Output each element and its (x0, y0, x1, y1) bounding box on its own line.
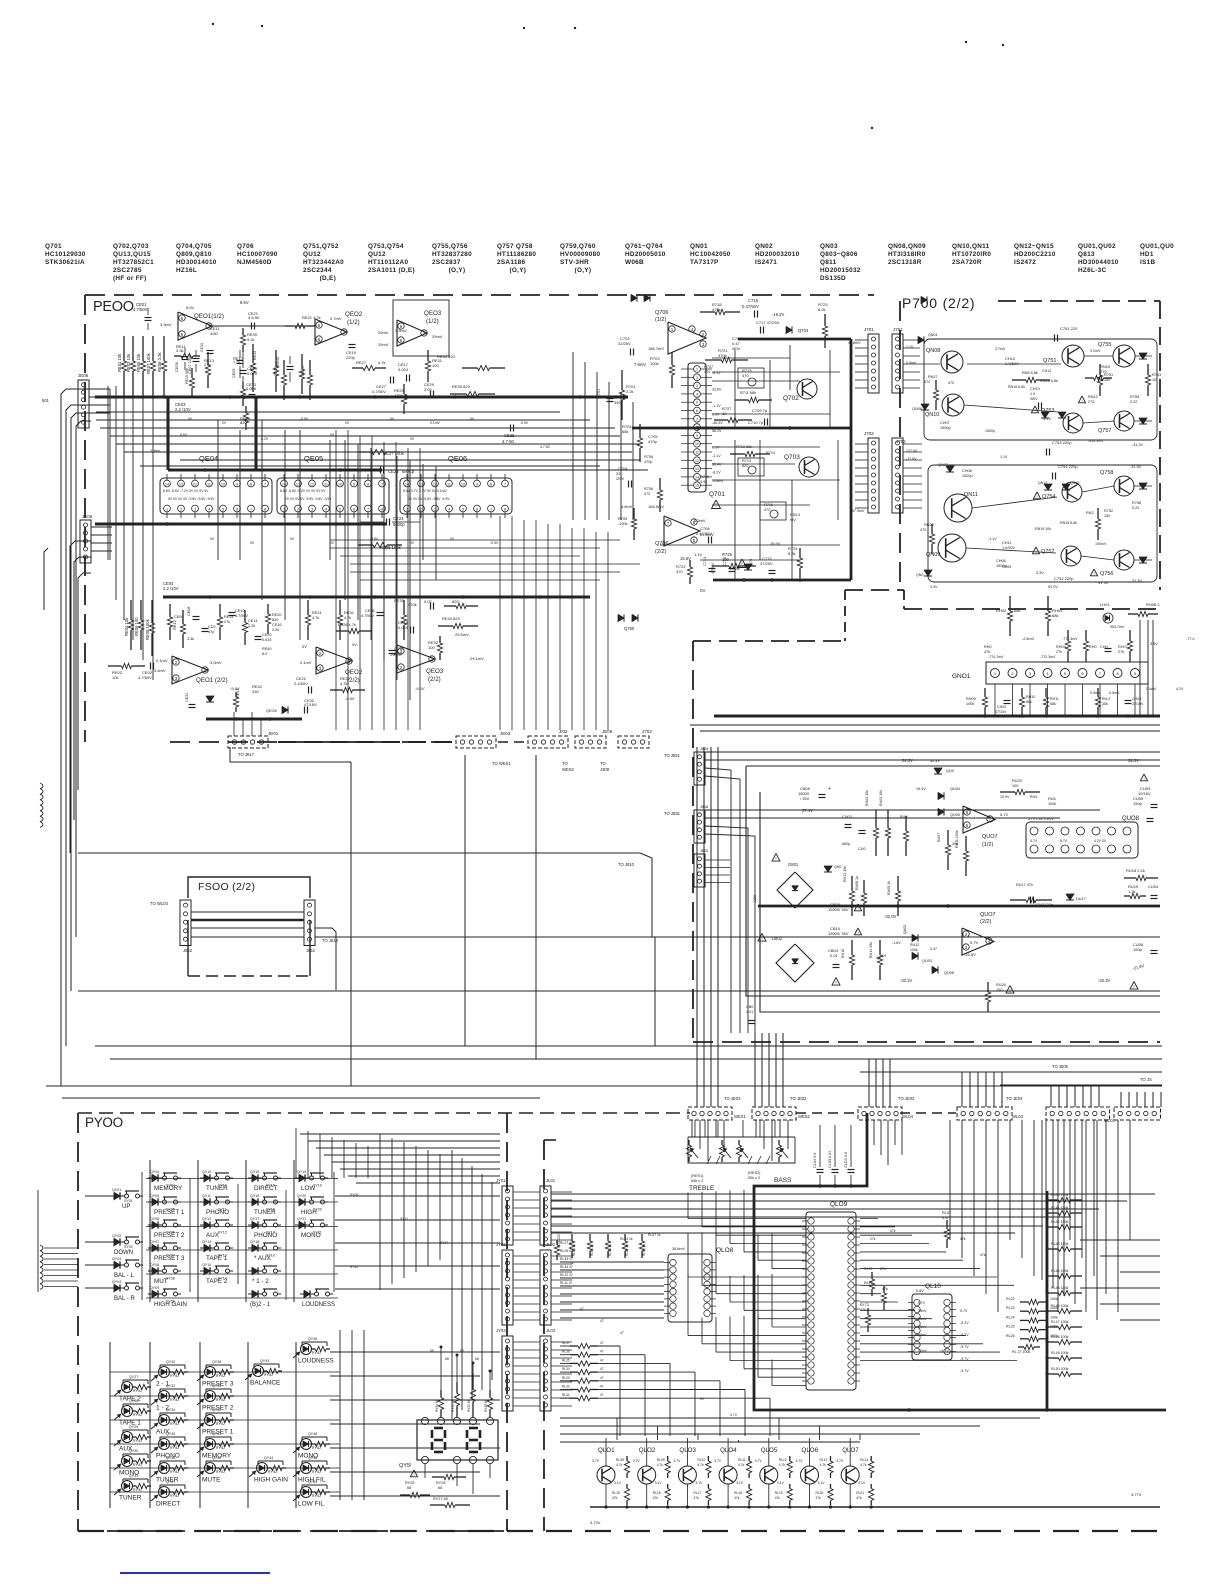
svg-text:47k: 47k (816, 1496, 822, 1500)
svg-text:RE35 820: RE35 820 (452, 384, 471, 389)
svg-text:470k: 470k (712, 307, 721, 312)
svg-text:TUNER: TUNER (254, 1209, 276, 1216)
svg-text:8.2k: 8.2k (818, 307, 826, 312)
svg-text:Q751,Q752: Q751,Q752 (303, 243, 339, 250)
svg-text:RL17: RL17 (693, 1491, 701, 1495)
svg-text:47: 47 (600, 1385, 604, 1389)
svg-text:RE27: RE27 (356, 360, 367, 365)
resistor RE16 56k (244, 610, 246, 623)
svg-text:8.6V -5.8V -5.2V 0V 0V 0V: 8.6V -5.8V -5.2V 0V 0V 0V 0V (280, 489, 326, 493)
svg-text:4.7/50V: 4.7/50V (133, 307, 148, 312)
vertical drops below connector WES1 (691, 1120, 693, 1137)
svg-text:CH11: CH11 (1002, 541, 1011, 545)
svg-text:QN02: QN02 (755, 243, 773, 250)
svg-text:RU18 2.2k: RU18 2.2k (1126, 868, 1145, 873)
svg-text:HD30044010: HD30044010 (1078, 259, 1119, 266)
svg-text:JY03: JY03 (496, 1328, 506, 1333)
svg-text:QU04: QU04 (950, 787, 960, 791)
IC QE04 (160, 478, 272, 514)
svg-text:Q701: Q701 (709, 491, 725, 498)
svg-text:820: 820 (272, 618, 278, 622)
resistor RE39 9.2k (242, 328, 244, 335)
svg-text:7.2k: 7.2k (233, 360, 241, 365)
svg-text:2SA1186: 2SA1186 (497, 259, 526, 266)
connector JY02 (502, 1250, 513, 1325)
switch TAPE 1 QY12 (200, 1247, 204, 1249)
horizontal feed wires QL block top from JL01 (551, 1193, 1155, 1195)
svg-text:15.9V: 15.9V (1000, 795, 1010, 799)
svg-text:-56.3V: -56.3V (712, 421, 723, 425)
svg-text:-1.6V: -1.6V (892, 941, 901, 945)
resistor RE17 7.2k (242, 382, 244, 389)
capacitor CE20 0.024 (255, 636, 262, 638)
svg-text:TO JE02: TO JE02 (790, 1096, 807, 1101)
svg-text:5.7V: 5.7V (918, 1301, 926, 1305)
svg-text:AUX: AUX (206, 1232, 220, 1239)
svg-text:RU03 10k: RU03 10k (879, 790, 883, 806)
resistor RE26 4.7k (339, 600, 341, 615)
svg-text:47k: 47k (856, 1496, 862, 1500)
svg-text:4.2V: 4.2V (1176, 687, 1184, 691)
svg-text:CH12: CH12 (1042, 369, 1051, 373)
svg-text:RH11: RH11 (1050, 697, 1059, 701)
connector JL03 (540, 1336, 551, 1411)
indicator BALANCE QY43 (253, 1366, 264, 1377)
svg-text:RU07: RU07 (937, 833, 941, 842)
svg-text:8: 8 (264, 508, 266, 512)
svg-text:3.1V: 3.1V (818, 1481, 826, 1485)
svg-text:RL13: RL13 (820, 1458, 828, 1462)
svg-text:QU05: QU05 (944, 971, 954, 975)
horizontal runs below bold bus QL (560, 1417, 1040, 1419)
svg-text:3.3V: 3.3V (1036, 571, 1044, 575)
resistor RE01 10k (123, 336, 125, 361)
svg-text:QE04: QE04 (199, 454, 218, 463)
svg-text:100k: 100k (966, 702, 974, 706)
svg-text:SY02: SY02 (124, 1245, 133, 1249)
resistor R751 150 (1099, 364, 1101, 375)
svg-text:QEO8: QEO8 (266, 709, 277, 713)
svg-text:2.2 /10V: 2.2 /10V (163, 586, 179, 591)
resistor RL40 100k (1047, 1199, 1059, 1201)
svg-text:QN09: QN09 (926, 552, 940, 558)
svg-text:-1.1V: -1.1V (1042, 417, 1052, 421)
svg-text:DOWN: DOWN (114, 1250, 133, 1256)
svg-text:47/63V: 47/63V (711, 562, 715, 574)
resistor RE27 4.7k (352, 367, 363, 369)
switch TUNER QY09 (200, 1177, 204, 1179)
svg-text:(D,E): (D,E) (303, 275, 336, 282)
svg-text:(RES1): (RES1) (691, 1174, 704, 1178)
svg-text:-9.5V: -9.5V (520, 421, 529, 425)
resistor RU02 10k (875, 810, 877, 828)
svg-text:R706: R706 (644, 455, 653, 459)
svg-text:RY31 68: RY31 68 (435, 1399, 439, 1412)
svg-text:RL20: RL20 (816, 1491, 824, 1495)
svg-text:RE05 10k: RE05 10k (136, 353, 141, 372)
op-amp QE01 (2/2) (172, 656, 208, 684)
svg-text:47k: 47k (734, 1496, 740, 1500)
svg-text:RN18 6.8k: RN18 6.8k (1040, 379, 1058, 383)
capacitor CU02 680p (845, 824, 852, 826)
capacitor CE02 4.7/50V (150, 663, 152, 670)
svg-text:0.024: 0.024 (262, 638, 272, 642)
svg-text:Q759,Q760: Q759,Q760 (560, 243, 596, 250)
wires GN01 pins to rail (994, 684, 996, 716)
diode QN04 input (921, 296, 927, 303)
svg-text:QY20: QY20 (297, 1194, 306, 1198)
svg-text:0V: 0V (250, 541, 255, 545)
indicator TAPE 1 QY28 (122, 1406, 133, 1417)
svg-text:PRESET 2: PRESET 2 (154, 1232, 185, 1239)
svg-text:QU01,QU0: QU01,QU0 (1140, 243, 1174, 250)
svg-text:47: 47 (600, 1367, 604, 1371)
wires PY00 left entry (40, 1245, 43, 1251)
svg-text:TO J581: TO J581 (664, 811, 681, 816)
svg-text:47k: 47k (984, 650, 990, 654)
svg-text:RE43: RE43 (253, 351, 257, 360)
svg-text:RU12: RU12 (910, 943, 919, 947)
svg-text:J751: J751 (893, 327, 903, 332)
svg-text:CE31: CE31 (185, 693, 189, 703)
svg-text:RE26: RE26 (344, 611, 354, 615)
svg-text:5.7V: 5.7V (1060, 839, 1068, 843)
svg-text:4.6-50: 4.6-50 (248, 315, 260, 320)
connector WL02 right (1114, 1107, 1161, 1120)
op-amp QE02 (1/2) (315, 319, 347, 345)
svg-text:IS1B: IS1B (1140, 259, 1155, 266)
svg-text:11: 11 (695, 451, 699, 455)
svg-text:470: 470 (924, 380, 930, 384)
svg-text:HT327852C1: HT327852C1 (113, 259, 154, 266)
rect around QE03 (393, 300, 449, 356)
resistor RU05 1k (897, 876, 899, 891)
diode QN14 right column (1139, 483, 1147, 489)
indicator MONO QY48 (301, 1439, 312, 1450)
svg-text:!: ! (857, 930, 858, 935)
svg-text:J703: J703 (642, 729, 652, 734)
indicator TUNER QY31 (122, 1481, 133, 1492)
svg-text:8.6V -5.6V -7.2V 0V 0V 0V: 8.6V -5.6V -7.2V 0V 0V 0V 0V (163, 489, 209, 493)
svg-text:47k: 47k (882, 1287, 888, 1291)
svg-text:0.024: 0.024 (247, 371, 258, 376)
svg-text:RL25 47: RL25 47 (560, 1249, 573, 1253)
svg-text:SY01: SY01 (124, 1199, 133, 1203)
svg-text:4.7k: 4.7k (779, 1463, 786, 1467)
svg-text:TO J505: TO J505 (1052, 1064, 1069, 1069)
svg-text:8: 8 (490, 483, 492, 487)
svg-text:QN13: QN13 (1038, 481, 1047, 485)
dashed bottom main (78, 1530, 1160, 1532)
svg-text:470: 470 (704, 370, 710, 374)
switch PHONO QY16 (248, 1224, 252, 1226)
svg-text:RU11 100k: RU11 100k (955, 830, 959, 848)
svg-text:-1.1V: -1.1V (712, 404, 721, 408)
svg-text:Q813: Q813 (1078, 251, 1095, 258)
svg-text:270: 270 (1088, 400, 1094, 404)
svg-text:RE12: RE12 (172, 619, 177, 630)
svg-text:0.9mV: 0.9mV (1090, 691, 1101, 695)
svg-text:10: 10 (221, 483, 225, 487)
wires JE01 up (233, 712, 235, 736)
resistor RH12 33k (1097, 688, 1099, 697)
svg-text:35k: 35k (1102, 702, 1108, 706)
svg-text:8: 8 (381, 508, 383, 512)
svg-text:MONO: MONO (301, 1232, 321, 1239)
svg-text:QN01: QN01 (690, 243, 708, 250)
svg-text:C713: C713 (703, 557, 707, 566)
svg-text:QN10: QN10 (925, 412, 939, 418)
seven segment pins bottom (421, 1456, 428, 1463)
capacitor CE07 (193, 358, 200, 360)
svg-text:TO JE03: TO JE03 (724, 1096, 741, 1101)
vertical wire bundle right of QL09 (949, 1120, 951, 1240)
svg-text:J309: J309 (600, 767, 610, 772)
svg-text:DU17: DU17 (1076, 897, 1086, 901)
left outer hook arc (44, 548, 48, 610)
svg-text:7: 7 (696, 417, 698, 421)
wires PY00 row feeds (300, 1133, 500, 1135)
svg-text:8: 8 (250, 483, 252, 487)
diode QE07 (206, 696, 214, 702)
wires from J819 long rails (705, 751, 1160, 753)
svg-text:RN15 6.8k: RN15 6.8k (1060, 521, 1077, 525)
svg-text:(O,Y): (O,Y) (432, 267, 465, 274)
svg-text:RL73: RL73 (860, 1303, 869, 1307)
svg-text:RN19 10k: RN19 10k (1035, 527, 1051, 531)
svg-text:HD20015032: HD20015032 (820, 267, 861, 274)
svg-text:2: 2 (180, 508, 182, 512)
svg-text:14: 14 (282, 483, 286, 487)
wire horizontal runs mid PE00 (96, 411, 560, 413)
svg-text:SY12: SY12 (218, 1231, 227, 1235)
vertical drops below connector WL04 (873, 1120, 875, 1145)
svg-text:RL19: RL19 (775, 1491, 783, 1495)
bridge rectifier D802 (776, 944, 814, 982)
svg-text:27k: 27k (224, 620, 230, 624)
svg-text:0V: 0V (700, 1397, 705, 1401)
svg-text:50k x 2: 50k x 2 (748, 1176, 760, 1180)
svg-text:MUTE: MUTE (202, 1477, 221, 1484)
svg-text:RN12: RN12 (1088, 395, 1098, 399)
svg-text:11: 11 (324, 483, 328, 487)
svg-text:QY48: QY48 (308, 1432, 317, 1436)
resistor RE37 100k (358, 451, 372, 453)
svg-text:3.7V: 3.7V (755, 1459, 763, 1463)
svg-text:QN06: QN06 (912, 407, 922, 411)
indicator MONO QY30 (122, 1456, 133, 1467)
svg-text:6.3mV: 6.3mV (694, 518, 706, 523)
svg-text:100k: 100k (910, 948, 918, 952)
svg-text:4: 4 (696, 392, 698, 396)
svg-text:47: 47 (600, 1350, 604, 1354)
svg-text:CE09: CE09 (232, 369, 236, 379)
svg-text:820: 820 (452, 599, 459, 604)
left edge hook arcs (40, 783, 43, 789)
svg-text:RL44 100k: RL44 100k (1051, 1269, 1069, 1273)
svg-text:HIGH: HIGH (301, 1209, 317, 1216)
svg-text:RL09: RL09 (657, 1458, 665, 1462)
resistor RE45 extra (275, 350, 277, 366)
svg-text:-772.3mV: -772.3mV (1040, 655, 1056, 659)
svg-text:RH08 2: RH08 2 (1146, 602, 1160, 607)
svg-text:RL34 47: RL34 47 (560, 1265, 573, 1269)
svg-text:RY 82: RY 82 (170, 1494, 179, 1498)
svg-text:-4.8mV: -4.8mV (620, 505, 633, 509)
svg-text:1: 1 (283, 508, 285, 512)
resistor RE15 56k (191, 368, 193, 378)
svg-text:QY44: QY44 (264, 1456, 273, 1460)
svg-text:QLO4: QLO4 (720, 1447, 737, 1454)
wire QE01 out (209, 325, 310, 327)
resistor RH02 68k (1009, 596, 1011, 611)
board P700 dashed bottom (845, 589, 904, 591)
svg-text:* 1 - 2: * 1 - 2 (252, 1278, 269, 1285)
connector JE03 (456, 736, 496, 748)
svg-text:QY50: QY50 (308, 1480, 317, 1484)
IC Q701 (688, 363, 706, 492)
svg-text:3.3k: 3.3k (176, 348, 184, 353)
svg-text:PHONO: PHONO (254, 1232, 277, 1239)
svg-text:3.7V: 3.7V (673, 1459, 681, 1463)
svg-text:QY5!: QY5! (399, 1463, 412, 1469)
svg-text:QY40: QY40 (212, 1408, 221, 1412)
svg-text:RL64 1k: RL64 1k (620, 1237, 633, 1241)
svg-text:4: 4 (325, 508, 327, 512)
potentiometer network RES1 TREBLE (688, 1136, 795, 1138)
svg-text:RY 82: RY 82 (170, 1446, 179, 1450)
svg-text:SY11: SY11 (400, 1217, 408, 1221)
transistor QN08 (941, 351, 963, 373)
svg-text:CD2: CD2 (208, 625, 216, 629)
svg-text:JL02: JL02 (546, 1242, 556, 1247)
resistor RU11 100k (965, 836, 967, 851)
board FS00 dashed bottom (187, 940, 189, 976)
svg-text:TO J551: TO J551 (664, 753, 681, 758)
svg-text:47: 47 (600, 1376, 604, 1380)
rail loop outer (746, 766, 1160, 996)
thin rails below GN01 (690, 724, 1160, 726)
svg-text:4.7/50V: 4.7/50V (235, 614, 249, 618)
svg-text:2SC2344: 2SC2344 (303, 267, 332, 274)
svg-text:2SA1011 (D,E): 2SA1011 (D,E) (368, 267, 415, 274)
svg-text:-37.6V: -37.6V (906, 457, 917, 461)
svg-text:-8.2V: -8.2V (712, 471, 721, 475)
switch LOUDNESS row6 (300, 1293, 304, 1295)
resistor RE07 100k (152, 336, 154, 361)
svg-text:3.3k: 3.3k (187, 637, 194, 641)
svg-text:QU02: QU02 (903, 925, 907, 934)
svg-text:QN03: QN03 (820, 243, 838, 250)
svg-text:QY21: QY21 (297, 1217, 306, 1221)
svg-text:14: 14 (695, 475, 699, 479)
svg-text:CH07: CH07 (940, 421, 950, 425)
svg-text:7: 7 (250, 508, 252, 512)
connector J851 (304, 900, 315, 946)
svg-text:JL03: JL03 (546, 1328, 556, 1333)
svg-text:CLD3 0.0: CLD3 0.0 (844, 1152, 848, 1168)
svg-text:22/25V: 22/25V (618, 341, 631, 346)
svg-text:RY 82: RY 82 (216, 1446, 225, 1450)
svg-text:-1.1V: -1.1V (988, 537, 997, 541)
svg-text:6: 6 (236, 508, 238, 512)
svg-text:4/50: 4/50 (210, 331, 219, 336)
svg-text:RL23: RL23 (1006, 1306, 1015, 1310)
svg-text:IS2471: IS2471 (755, 259, 777, 266)
svg-text:/ 35V: / 35V (800, 796, 810, 801)
svg-text:QLO8: QLO8 (716, 1247, 734, 1254)
svg-text:-32.2V: -32.2V (900, 978, 913, 983)
svg-text:BAL - L: BAL - L (114, 1273, 134, 1279)
diode DU17 (1066, 894, 1074, 900)
svg-text:47p: 47p (208, 630, 214, 634)
resistor RE35 820 (450, 393, 467, 395)
svg-text:QY41: QY41 (212, 1432, 221, 1436)
resistor RH10 68k (1021, 688, 1023, 697)
svg-text:8.6V: 8.6V (240, 300, 249, 305)
svg-text:HD1: HD1 (1140, 251, 1154, 258)
svg-text:RY 82: RY 82 (264, 1373, 273, 1377)
svg-text:-9.5V: -9.5V (345, 696, 355, 701)
connector J819 (694, 752, 705, 785)
svg-text:68k: 68k (1052, 613, 1058, 618)
svg-text:RE37 100k: RE37 100k (383, 451, 405, 456)
svg-text:0V 0V: 0V 0V (1048, 585, 1058, 589)
bold 0V rail (713, 579, 851, 582)
svg-text:1.2k: 1.2k (1128, 889, 1136, 894)
svg-text:RL46 100k: RL46 100k (1051, 1304, 1069, 1308)
svg-text:WES2: WES2 (798, 1114, 811, 1119)
svg-text:137.6V: 137.6V (906, 449, 918, 453)
svg-text:HV00009080: HV00009080 (560, 251, 600, 258)
svg-text:C753 220p: C753 220p (1052, 440, 1072, 445)
svg-text:QY32: QY32 (166, 1360, 175, 1364)
svg-text:SY20: SY20 (350, 1265, 358, 1269)
capacitor CE05 100p (182, 356, 189, 358)
indicator MEMORY QY41 (205, 1439, 216, 1450)
svg-text:CE16: CE16 (272, 623, 282, 627)
resistor RE24 4.7k (307, 600, 309, 615)
svg-text:0V 0V 0V 0V -9.8V -9.8V -9.: 0V 0V 0V 0V -9.8V -9.8V -9.5V (285, 497, 332, 501)
resistor RE32 100 (439, 636, 441, 643)
svg-text:47: 47 (580, 1307, 584, 1311)
svg-text:1.0/50V: 1.0/50V (1002, 546, 1016, 550)
resistor RH05 RH06 (1085, 630, 1087, 641)
svg-text:QU01,QU02: QU01,QU02 (1078, 243, 1116, 250)
svg-text:33.6V: 33.6V (712, 388, 722, 392)
svg-text:0V: 0V (210, 537, 215, 541)
svg-text:6: 6 (476, 508, 478, 512)
resistor RE47 extra (301, 354, 303, 369)
vertical drops below connector WES2 (755, 1120, 757, 1137)
svg-text:2: 2 (696, 376, 698, 380)
svg-text:RE41: RE41 (236, 689, 240, 699)
svg-text:RL49 100k: RL49 100k (1051, 1351, 1069, 1355)
svg-text:220p: 220p (346, 355, 356, 360)
bold vertical to lower bus (167, 397, 170, 470)
wires descending from PE00 mid to connectors (335, 430, 337, 730)
wires from J820 (705, 859, 730, 861)
svg-text:RE28 4.7k: RE28 4.7k (338, 623, 356, 627)
svg-text:QU03: QU03 (922, 959, 932, 963)
svg-text:TA7317P: TA7317P (690, 259, 719, 266)
svg-text:CL04 0.0: CL04 0.0 (813, 1153, 817, 1168)
resistor RE13 27k (207, 352, 209, 365)
svg-text:QLO7: QLO7 (842, 1447, 859, 1454)
svg-text:QY04: QY04 (150, 1170, 159, 1174)
svg-text:3.4mV: 3.4mV (154, 668, 166, 673)
svg-text:JE06: JE06 (82, 514, 93, 519)
